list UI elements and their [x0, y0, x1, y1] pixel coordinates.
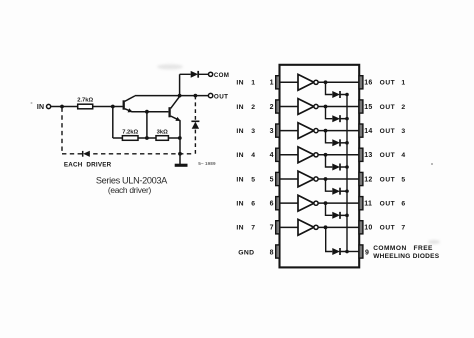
svg-text:3kΩ: 3kΩ: [157, 129, 168, 135]
svg-text:1: 1: [251, 80, 255, 87]
svg-text:OUT: OUT: [380, 201, 396, 208]
svg-text:8: 8: [270, 249, 274, 256]
svg-text:WHEELING DIODES: WHEELING DIODES: [373, 253, 440, 260]
svg-text:OUT: OUT: [380, 80, 396, 87]
svg-text:OUT: OUT: [380, 225, 396, 232]
svg-text:10: 10: [364, 225, 372, 232]
svg-text:IN: IN: [236, 80, 244, 87]
svg-text:3: 3: [401, 128, 405, 135]
svg-text:IN: IN: [236, 201, 244, 208]
svg-text:4: 4: [270, 152, 274, 159]
svg-text:12: 12: [364, 176, 372, 183]
svg-text:IN: IN: [37, 104, 44, 111]
svg-text:IN: IN: [236, 128, 244, 135]
svg-text:2: 2: [270, 104, 274, 111]
svg-text:5– 1989: 5– 1989: [198, 161, 216, 166]
svg-text:OUT: OUT: [380, 128, 396, 135]
svg-text:7: 7: [251, 225, 255, 232]
svg-text:4: 4: [251, 152, 255, 159]
svg-text:13: 13: [364, 152, 372, 159]
svg-text:6: 6: [401, 201, 405, 208]
svg-text:5: 5: [251, 176, 255, 183]
svg-text:OUT: OUT: [380, 176, 396, 183]
svg-text:3: 3: [270, 128, 274, 135]
svg-text:15: 15: [364, 104, 372, 111]
svg-text:1: 1: [270, 80, 274, 87]
svg-text:7: 7: [401, 225, 405, 232]
svg-text:(each driver): (each driver): [108, 185, 152, 195]
svg-text:14: 14: [364, 128, 372, 135]
svg-text:COM: COM: [214, 72, 229, 79]
svg-text:4: 4: [401, 152, 405, 159]
svg-text:GND: GND: [238, 249, 254, 256]
svg-text:7.2kΩ: 7.2kΩ: [122, 129, 138, 135]
svg-text:6: 6: [251, 201, 255, 208]
svg-text:IN: IN: [236, 104, 244, 111]
svg-text:OUT: OUT: [380, 152, 396, 159]
svg-text:OUT: OUT: [380, 104, 396, 111]
svg-text:1: 1: [401, 80, 405, 87]
svg-text:5: 5: [401, 176, 405, 183]
svg-text:2.7kΩ: 2.7kΩ: [77, 98, 93, 104]
svg-text:7: 7: [270, 225, 274, 232]
svg-text:IN: IN: [236, 152, 244, 159]
svg-text:16: 16: [364, 80, 372, 87]
svg-text:2: 2: [401, 104, 405, 111]
svg-text:IN: IN: [236, 176, 244, 183]
svg-text:5: 5: [270, 176, 274, 183]
svg-text:IN: IN: [236, 225, 244, 232]
svg-text:9: 9: [365, 249, 369, 256]
svg-text:COMMON FREE: COMMON FREE: [373, 245, 433, 252]
svg-text:6: 6: [270, 201, 274, 208]
svg-text:11: 11: [364, 201, 372, 208]
svg-text:EACH DRIVER: EACH DRIVER: [64, 161, 112, 168]
svg-text:Series ULN-2003A: Series ULN-2003A: [96, 176, 168, 186]
svg-text:OUT: OUT: [214, 93, 229, 100]
svg-text:2: 2: [251, 104, 255, 111]
svg-text:3: 3: [251, 128, 255, 135]
